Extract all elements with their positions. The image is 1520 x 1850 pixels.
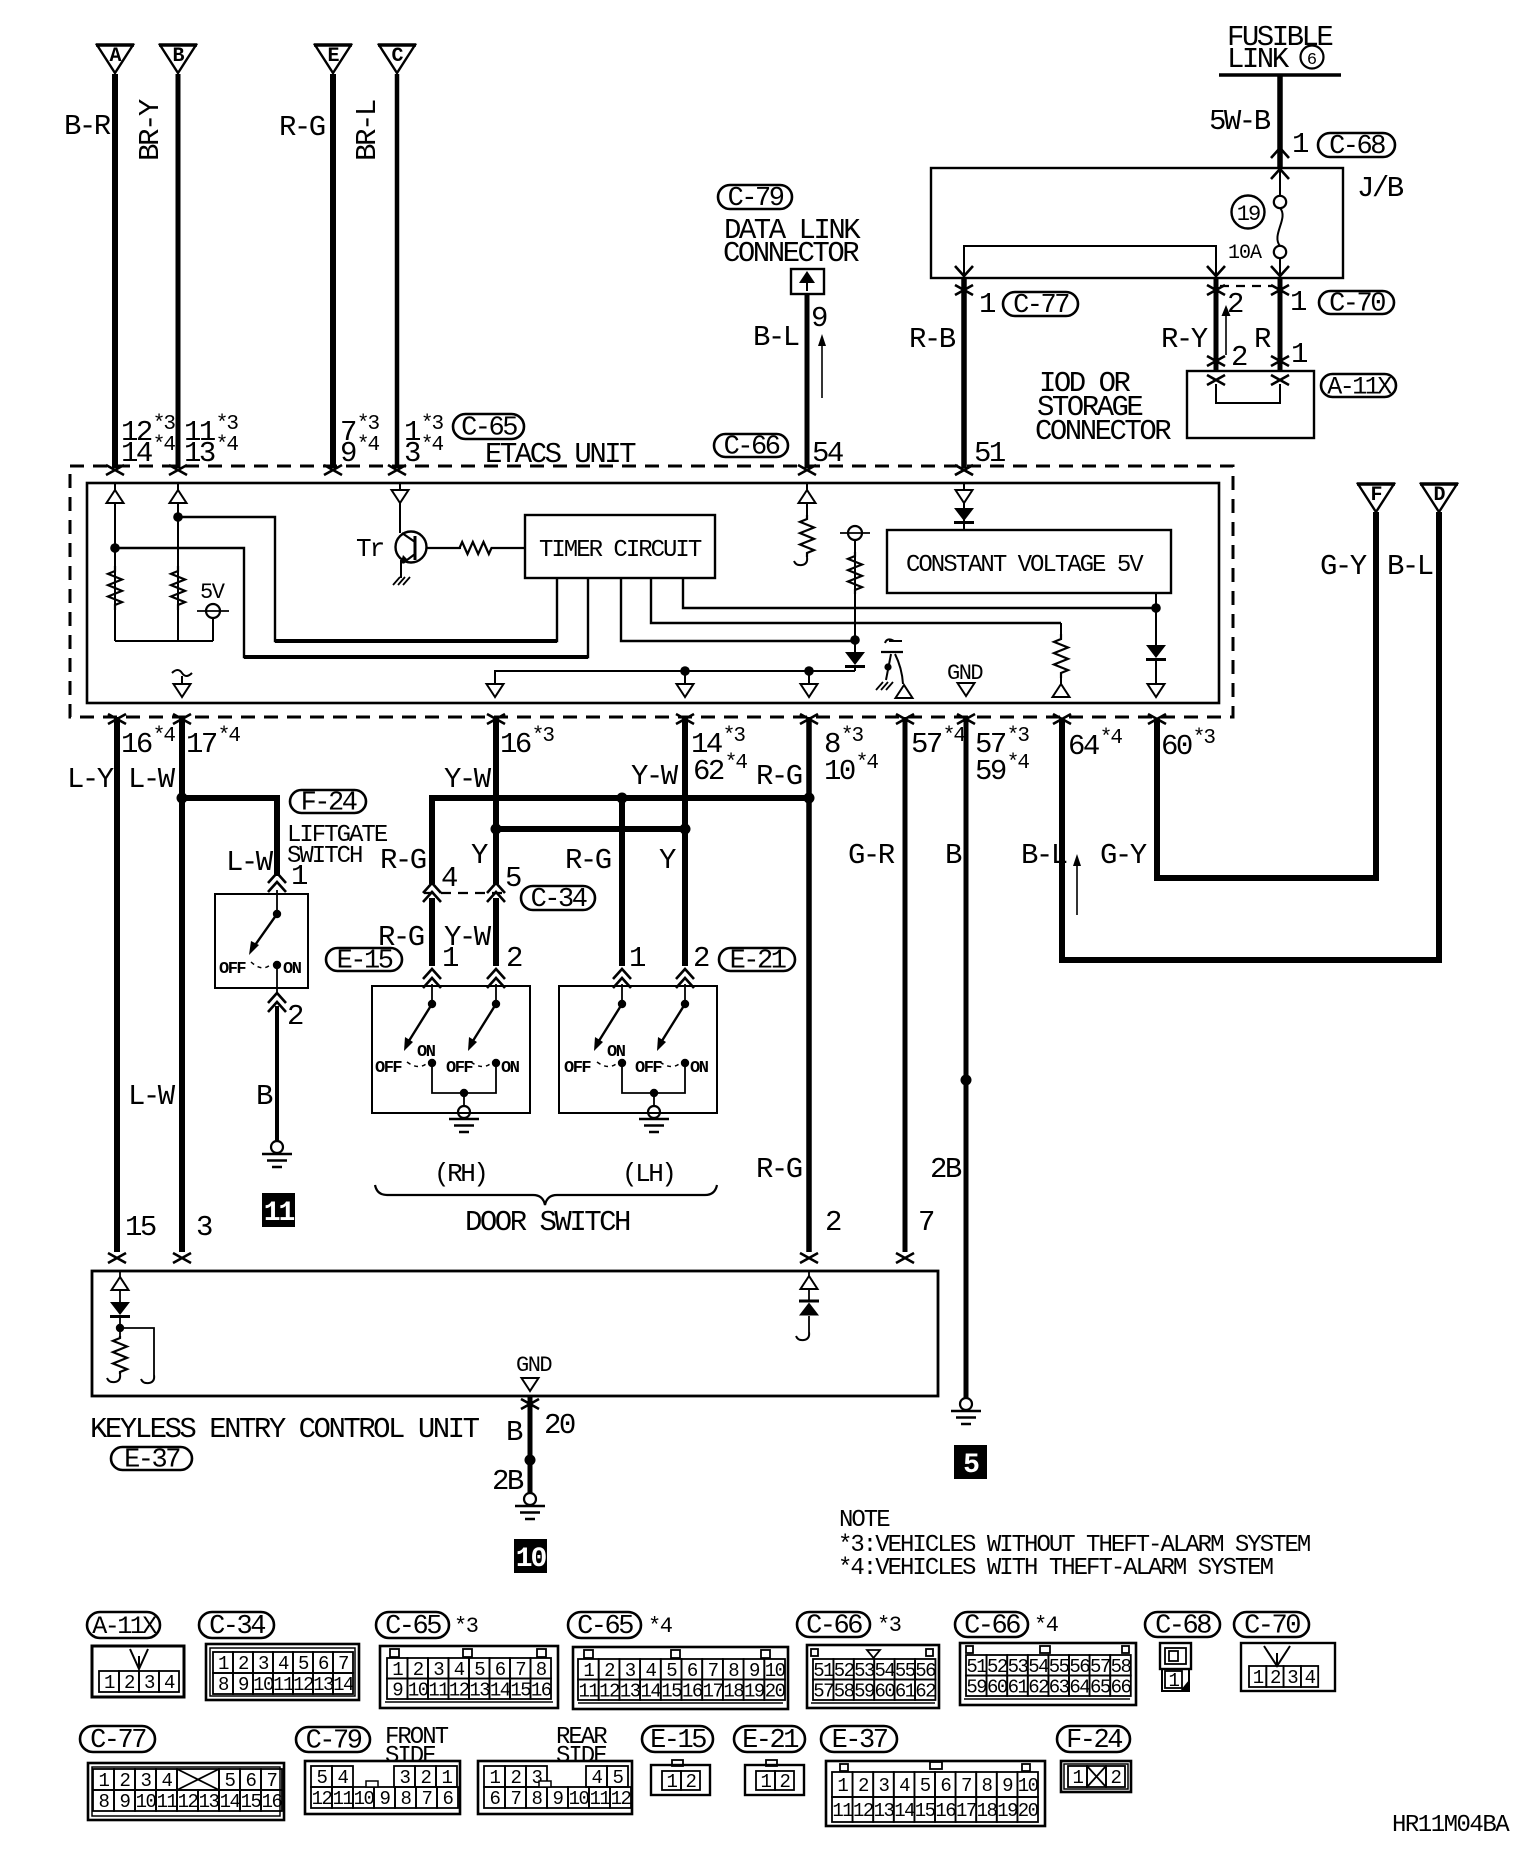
svg-text:59: 59 <box>854 1680 875 1702</box>
svg-text:C-65: C-65 <box>385 1612 441 1642</box>
svg-text:BR-Y: BR-Y <box>134 99 167 161</box>
svg-text:ON: ON <box>690 1059 709 1078</box>
svg-text:7: 7 <box>511 1788 521 1810</box>
wire B from liftgate to ground 11 <box>275 1006 279 1142</box>
svg-text:R-B: R-B <box>909 323 956 356</box>
svg-text:C-68: C-68 <box>1155 1612 1211 1642</box>
svg-text:6: 6 <box>246 1770 257 1792</box>
svg-text:OFF: OFF <box>635 1059 662 1078</box>
svg-text:10: 10 <box>136 1791 157 1813</box>
internal ground bus <box>495 671 855 685</box>
svg-text:F: F <box>1370 484 1381 507</box>
svg-text:12: 12 <box>449 1679 470 1701</box>
svg-text:63: 63 <box>1049 1676 1070 1698</box>
wire BR-Y from B to ETACS <box>176 74 181 468</box>
svg-text:2: 2 <box>287 1000 303 1033</box>
svg-text:1: 1 <box>104 1672 115 1694</box>
connector table E-21 <box>734 1726 805 1752</box>
door switch brace <box>375 1185 717 1205</box>
connector table C-79 front side <box>296 1727 370 1752</box>
wire G-R pin57*4 to keyless pin 7 <box>903 717 908 1252</box>
svg-text:19: 19 <box>744 1680 765 1702</box>
svg-text:B-L: B-L <box>1021 839 1067 872</box>
wire B pin57/59 to ground 5 <box>964 717 969 1398</box>
resistor bottom tie line <box>115 640 213 642</box>
svg-text:52: 52 <box>834 1660 855 1682</box>
svg-text:2: 2 <box>780 1771 791 1793</box>
svg-text:*3: *3 <box>1193 727 1216 750</box>
svg-text:6: 6 <box>1307 51 1317 70</box>
svg-text:18: 18 <box>977 1800 998 1822</box>
svg-text:6: 6 <box>318 1653 329 1675</box>
svg-text:*4: *4 <box>216 434 239 457</box>
CONSTANT VOLTAGE 5V box <box>887 530 1171 593</box>
svg-text:4: 4 <box>645 1660 656 1682</box>
svg-text:R-G: R-G <box>756 760 802 793</box>
keyless unit entry crossings <box>108 1253 126 1263</box>
svg-text:4: 4 <box>162 1770 173 1792</box>
svg-text:E-21: E-21 <box>742 1726 798 1756</box>
svg-text:B: B <box>172 45 184 68</box>
svg-text:59: 59 <box>966 1676 987 1698</box>
svg-text:53: 53 <box>1008 1656 1029 1678</box>
svg-text:57: 57 <box>813 1680 833 1702</box>
liftgate connector crossing pin 2 <box>268 993 286 1003</box>
svg-text:Y: Y <box>659 844 676 877</box>
Tr collector wire from pin C <box>399 483 401 533</box>
svg-text:D: D <box>1433 484 1445 507</box>
ETACS unit dashed boundary <box>70 466 1233 717</box>
connector label E-15 <box>326 948 402 971</box>
svg-text:17: 17 <box>186 728 217 761</box>
svg-text:5: 5 <box>225 1770 236 1792</box>
svg-text:1: 1 <box>218 1653 229 1675</box>
svg-text:CONNECTOR: CONNECTOR <box>1035 415 1171 448</box>
svg-text:B-L: B-L <box>1387 550 1433 583</box>
connector table E-37 <box>821 1726 897 1752</box>
wire B-L from D to ETACS pin 64 <box>1062 512 1439 960</box>
svg-text:A-11X: A-11X <box>1327 373 1392 402</box>
wire G-Y from F to ETACS pin 60 <box>1157 512 1376 878</box>
svg-text:10A: 10A <box>1228 242 1262 265</box>
svg-text:*4: *4 <box>943 725 966 748</box>
svg-text:R-G: R-G <box>380 844 426 877</box>
Tr emitter to chassis <box>400 560 402 578</box>
svg-text:11: 11 <box>428 1679 449 1701</box>
svg-text:11: 11 <box>264 1198 295 1229</box>
connector table A-11X <box>87 1612 160 1638</box>
svg-text:14: 14 <box>894 1800 915 1822</box>
LH switch ground tie <box>622 1063 685 1093</box>
LH door switch box <box>559 986 717 1113</box>
R-G stub to LH pin1 <box>619 798 625 966</box>
svg-text:1: 1 <box>583 1660 594 1682</box>
svg-text:4: 4 <box>278 1653 289 1675</box>
svg-text:TIMER CIRCUIT: TIMER CIRCUIT <box>539 537 702 564</box>
svg-text:7: 7 <box>267 1770 277 1792</box>
svg-text:15: 15 <box>125 1211 156 1244</box>
top connector triangle A <box>97 45 133 73</box>
svg-text:2: 2 <box>825 1206 841 1239</box>
svg-text:*4: *4 <box>421 434 444 457</box>
svg-text:53: 53 <box>854 1660 875 1682</box>
connector label C-68 <box>1318 133 1395 157</box>
svg-text:A-11X: A-11X <box>92 1612 157 1641</box>
svg-text:G-Y: G-Y <box>1100 839 1147 872</box>
top connector triangle C <box>379 45 415 73</box>
svg-text:62: 62 <box>915 1680 936 1702</box>
svg-text:15: 15 <box>661 1680 682 1702</box>
svg-text:6: 6 <box>495 1659 506 1681</box>
connector label C-79 <box>718 185 792 209</box>
svg-text:CONNECTOR: CONNECTOR <box>723 237 859 270</box>
svg-text:*4:VEHICLES WITH THEFT-ALARM S: *4:VEHICLES WITH THEFT-ALARM SYSTEM <box>838 1555 1273 1582</box>
svg-text:3: 3 <box>625 1660 636 1682</box>
svg-text:3: 3 <box>1287 1667 1298 1689</box>
svg-text:B-L: B-L <box>753 321 799 354</box>
svg-text:OFF: OFF <box>219 960 246 979</box>
svg-text:*3: *3 <box>357 413 380 436</box>
wire 5W-B <box>1277 75 1283 168</box>
svg-text:(RH): (RH) <box>434 1159 486 1189</box>
keyless ground wire pin 20 <box>521 1399 539 1409</box>
svg-text:10: 10 <box>824 755 855 788</box>
svg-text:C-79: C-79 <box>306 1727 362 1757</box>
svg-text:16: 16 <box>531 1679 552 1701</box>
ETACS pin 54 internals: arrow, resistor <box>806 483 808 515</box>
svg-text:56: 56 <box>915 1660 936 1682</box>
connector label C-34 <box>521 886 595 910</box>
svg-text:11: 11 <box>590 1788 611 1810</box>
svg-text:G-R: G-R <box>848 839 895 872</box>
svg-text:56: 56 <box>1069 1656 1090 1678</box>
svg-text:B: B <box>945 839 962 872</box>
svg-text:60: 60 <box>1161 730 1192 763</box>
svg-text:2: 2 <box>506 942 522 975</box>
svg-text:65: 65 <box>1090 1676 1111 1698</box>
svg-text:*4: *4 <box>856 752 879 775</box>
ETACS wire A internals: arrow, resistor <box>114 483 116 641</box>
svg-text:Tr: Tr <box>356 534 384 564</box>
top connector triangle F <box>1358 484 1394 512</box>
svg-text:ON: ON <box>501 1059 520 1078</box>
connector C-68 crossing <box>1271 148 1289 158</box>
svg-text:C-65: C-65 <box>577 1612 633 1642</box>
wire R-B to ETACS pin 51 <box>961 278 967 468</box>
svg-text:C-66: C-66 <box>806 1612 862 1642</box>
svg-text:11: 11 <box>273 1674 294 1696</box>
svg-text:3: 3 <box>258 1653 269 1675</box>
wire B branch to timer <box>178 517 557 641</box>
svg-text:3: 3 <box>144 1672 155 1694</box>
connector table F-24 <box>1057 1726 1130 1752</box>
liftgate switch box F-24 <box>215 894 308 988</box>
svg-text:8: 8 <box>536 1659 547 1681</box>
svg-text:2: 2 <box>1270 1667 1281 1689</box>
svg-text:1: 1 <box>761 1771 772 1793</box>
svg-text:2B: 2B <box>930 1153 962 1186</box>
ground switch symbol <box>885 639 894 643</box>
svg-text:4: 4 <box>441 862 457 895</box>
svg-text:ON: ON <box>283 960 302 979</box>
svg-text:11: 11 <box>333 1788 354 1810</box>
svg-text:60: 60 <box>874 1680 895 1702</box>
svg-text:B-R: B-R <box>64 110 111 143</box>
svg-text:*3: *3 <box>841 725 864 748</box>
top connector triangle E <box>315 45 351 73</box>
svg-text:8: 8 <box>982 1775 993 1797</box>
svg-text:12: 12 <box>611 1788 632 1810</box>
svg-text:9: 9 <box>380 1788 391 1810</box>
svg-text:66: 66 <box>1111 1676 1132 1698</box>
svg-text:1: 1 <box>1292 128 1308 161</box>
resistor to pin 64 <box>1060 623 1062 640</box>
svg-text:CONSTANT VOLTAGE 5V: CONSTANT VOLTAGE 5V <box>906 552 1144 579</box>
svg-text:L-W: L-W <box>226 846 274 879</box>
svg-text:*4: *4 <box>153 725 176 748</box>
svg-text:52: 52 <box>987 1656 1008 1678</box>
svg-text:BR-L: BR-L <box>351 100 384 161</box>
svg-text:57: 57 <box>911 728 942 761</box>
liftgate connector crossing pin 1 <box>268 873 286 883</box>
svg-text:58: 58 <box>834 1680 855 1702</box>
svg-text:5: 5 <box>298 1653 309 1675</box>
svg-text:17: 17 <box>703 1680 723 1702</box>
svg-text:5: 5 <box>920 1775 931 1797</box>
svg-text:OFF: OFF <box>375 1059 402 1078</box>
svg-text:*3: *3 <box>723 725 746 748</box>
svg-text:14: 14 <box>333 1674 354 1696</box>
connector label C-65 <box>453 414 524 439</box>
svg-text:F-24: F-24 <box>1066 1726 1122 1756</box>
top connector triangle B <box>160 45 196 73</box>
svg-text:*4: *4 <box>725 752 748 775</box>
svg-text:5: 5 <box>963 1450 979 1481</box>
svg-text:6: 6 <box>443 1788 454 1810</box>
svg-text:1: 1 <box>1291 338 1307 371</box>
svg-text:58: 58 <box>1111 1656 1132 1678</box>
liftgate branch junction <box>177 793 188 804</box>
svg-text:*3: *3 <box>877 1613 901 1638</box>
svg-text:14: 14 <box>641 1680 662 1702</box>
svg-text:1: 1 <box>667 1771 678 1793</box>
svg-text:2: 2 <box>1231 341 1247 374</box>
svg-text:1: 1 <box>837 1775 848 1797</box>
svg-text:1: 1 <box>442 1767 453 1789</box>
connector label C-66 <box>714 434 788 457</box>
svg-text:4: 4 <box>454 1659 465 1681</box>
svg-text:8: 8 <box>532 1788 543 1810</box>
svg-text:OFF: OFF <box>446 1059 473 1078</box>
svg-text:E-21: E-21 <box>730 947 786 977</box>
TIMER CIRCUIT box <box>525 515 715 578</box>
svg-text:9: 9 <box>238 1674 249 1696</box>
svg-text:4: 4 <box>592 1767 603 1789</box>
connector table C-70 <box>1234 1612 1309 1637</box>
svg-text:F-24: F-24 <box>301 789 357 819</box>
keyless pin 2 internals: diode <box>808 1271 810 1301</box>
svg-text:2: 2 <box>1111 1767 1122 1789</box>
RH door switch left contact <box>428 1000 436 1008</box>
svg-text:E-37: E-37 <box>832 1726 888 1756</box>
RH door switch right contact <box>492 1000 500 1008</box>
svg-text:7: 7 <box>708 1660 718 1682</box>
svg-text:L-W: L-W <box>128 763 176 796</box>
svg-text:16: 16 <box>262 1791 283 1813</box>
wire B-L to ETACS pin 54 <box>805 294 810 468</box>
svg-text:C-70: C-70 <box>1329 290 1385 320</box>
svg-text:*4: *4 <box>357 434 380 457</box>
svg-text:10: 10 <box>765 1660 786 1682</box>
ground tag 10 <box>514 1539 547 1573</box>
svg-text:Y-W: Y-W <box>444 763 492 796</box>
svg-text:3: 3 <box>433 1659 444 1681</box>
svg-text:51: 51 <box>966 1656 987 1678</box>
svg-text:2: 2 <box>120 1770 131 1792</box>
svg-text:2: 2 <box>604 1660 615 1682</box>
svg-text:7: 7 <box>961 1775 971 1797</box>
wire B-R from A to ETACS <box>112 74 118 468</box>
svg-text:51: 51 <box>813 1660 834 1682</box>
svg-text:61: 61 <box>895 1680 916 1702</box>
connector label E-37 <box>111 1447 192 1470</box>
connector label C-77 <box>1003 292 1078 316</box>
svg-text:J/B: J/B <box>1357 172 1404 205</box>
5V source on left of CV box <box>848 526 862 540</box>
svg-text:6: 6 <box>940 1775 951 1797</box>
svg-text:2B: 2B <box>492 1465 524 1498</box>
svg-text:2: 2 <box>511 1767 522 1789</box>
svg-text:1: 1 <box>99 1770 110 1792</box>
svg-text:R-G: R-G <box>756 1153 802 1186</box>
CV box output diode to pin 60 <box>1155 593 1157 645</box>
junction block J/B box <box>931 168 1343 278</box>
svg-text:15: 15 <box>915 1800 936 1822</box>
svg-text:12: 12 <box>599 1680 620 1702</box>
svg-text:13: 13 <box>313 1674 334 1696</box>
svg-text:R-G: R-G <box>565 844 611 877</box>
KEYLESS ENTRY CONTROL UNIT box <box>92 1271 938 1396</box>
svg-text:7: 7 <box>338 1653 348 1675</box>
connector C-77 crossing <box>955 285 973 295</box>
svg-text:C-77: C-77 <box>1013 291 1069 321</box>
connector label A-11X <box>1321 374 1396 397</box>
svg-text:15: 15 <box>241 1791 262 1813</box>
svg-text:C-77: C-77 <box>90 1726 146 1756</box>
svg-text:*4: *4 <box>1100 727 1123 750</box>
Y jumper line <box>496 826 685 832</box>
svg-text:13: 13 <box>874 1800 895 1822</box>
svg-text:4: 4 <box>1305 1667 1316 1689</box>
svg-text:6: 6 <box>490 1788 501 1810</box>
svg-text:L-Y: L-Y <box>67 763 114 796</box>
connector table C-65 *4 <box>568 1612 641 1638</box>
svg-text:1: 1 <box>1169 1670 1180 1692</box>
svg-text:16: 16 <box>121 728 152 761</box>
svg-text:7: 7 <box>422 1788 432 1810</box>
svg-text:LINK: LINK <box>1227 43 1290 76</box>
svg-text:*3: *3 <box>1007 725 1030 748</box>
svg-text:1: 1 <box>1073 1767 1084 1789</box>
svg-text:2: 2 <box>124 1672 135 1694</box>
A-11X internal jumper <box>1216 384 1280 403</box>
svg-text:9: 9 <box>811 302 827 335</box>
svg-text:C-66: C-66 <box>724 433 780 463</box>
svg-text:7: 7 <box>918 1206 934 1239</box>
svg-text:A: A <box>109 45 121 68</box>
G-Y direction arrow <box>1076 860 1078 915</box>
svg-text:OFF: OFF <box>564 1059 591 1078</box>
svg-text:20: 20 <box>765 1680 786 1702</box>
ground for wire B <box>960 1398 972 1410</box>
svg-text:19: 19 <box>1237 202 1260 227</box>
svg-text:14: 14 <box>490 1679 511 1701</box>
ground tag 5 <box>954 1445 987 1479</box>
svg-text:13: 13 <box>620 1680 641 1702</box>
svg-text:*4: *4 <box>218 725 241 748</box>
svg-text:C-34: C-34 <box>209 1612 265 1642</box>
connector label F-24 <box>290 790 366 813</box>
svg-text:R-G: R-G <box>279 111 325 144</box>
svg-text:*3: *3 <box>532 725 555 748</box>
J/B internal bus wire <box>964 246 1216 278</box>
svg-text:12: 12 <box>853 1800 874 1822</box>
connector table C-65 *3 <box>376 1612 449 1638</box>
svg-text:4: 4 <box>338 1767 349 1789</box>
wire R-G pin8/10 down to keyless <box>806 717 812 1252</box>
svg-text:HR11M04BA: HR11M04BA <box>1392 1812 1510 1839</box>
svg-text:1: 1 <box>979 288 995 321</box>
wire Y-W pin16*3 down <box>493 717 499 884</box>
svg-text:1: 1 <box>1253 1667 1264 1689</box>
svg-text:E-15: E-15 <box>337 947 393 977</box>
svg-text:64: 64 <box>1069 1676 1090 1698</box>
wire L-W pin17 to keyless pin 3 <box>179 717 185 1252</box>
svg-text:20: 20 <box>544 1409 575 1442</box>
wire L-Y pin16 to keyless pin 15 <box>114 717 120 1252</box>
A-11X lower crossing marks <box>1207 356 1225 366</box>
svg-text:11: 11 <box>832 1800 853 1822</box>
svg-text:B: B <box>256 1080 273 1113</box>
svg-text:55: 55 <box>895 1660 916 1682</box>
svg-text:16: 16 <box>682 1680 703 1702</box>
diode to ground bus <box>845 652 865 665</box>
svg-text:9: 9 <box>553 1788 564 1810</box>
svg-text:9: 9 <box>392 1679 403 1701</box>
svg-text:60: 60 <box>987 1676 1008 1698</box>
svg-text:20: 20 <box>1018 1800 1039 1822</box>
svg-text:R-Y: R-Y <box>1161 323 1208 356</box>
connector E-21 crossings <box>613 969 631 979</box>
svg-text:E: E <box>327 45 339 68</box>
svg-text:7: 7 <box>515 1659 525 1681</box>
svg-text:8: 8 <box>401 1788 412 1810</box>
svg-text:C-68: C-68 <box>1329 132 1385 162</box>
svg-text:2: 2 <box>413 1659 424 1681</box>
svg-text:*3: *3 <box>216 413 239 436</box>
svg-text:L-W: L-W <box>128 1080 176 1113</box>
svg-text:18: 18 <box>723 1680 744 1702</box>
svg-text:9: 9 <box>1002 1775 1013 1797</box>
svg-text:NOTE: NOTE <box>839 1507 890 1534</box>
connector E-15 crossings <box>423 969 441 979</box>
IOD OR STORAGE CONNECTOR box A-11X <box>1187 371 1314 438</box>
connector C-70 crossing wire R-Y pin2 <box>1214 278 1219 371</box>
svg-text:12: 12 <box>178 1791 199 1813</box>
svg-text:Y: Y <box>471 839 488 872</box>
data link connector box with arrow <box>791 269 824 294</box>
svg-text:2: 2 <box>238 1653 249 1675</box>
